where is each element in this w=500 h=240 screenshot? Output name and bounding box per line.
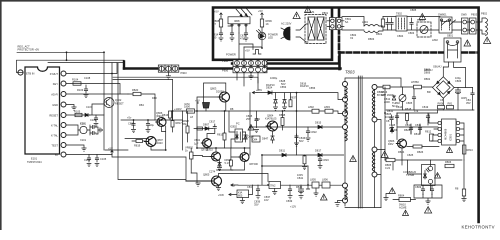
wire MCU upper rail: [48, 62, 124, 64]
pin X-TAL1: [51, 123, 66, 128]
svg-text:C804: C804: [397, 34, 404, 38]
zener D809: [244, 132, 254, 142]
svg-text:KIA78L05: KIA78L05: [265, 117, 277, 121]
diode D811: [279, 149, 286, 157]
wire feedback row: [385, 160, 462, 170]
capacitor C805: [406, 87, 416, 110]
svg-text:R8: R8: [230, 107, 234, 111]
svg-text:RGP10: RGP10: [266, 83, 275, 87]
thick bus A: [232, 57, 339, 64]
svg-text:R801: R801: [376, 32, 383, 36]
svg-text:2200: 2200: [384, 100, 390, 104]
transistor Q807: [145, 137, 164, 147]
svg-text:7IN2: 7IN2: [270, 184, 276, 188]
capacitor C836: [254, 185, 261, 207]
diode D824: [266, 83, 275, 94]
svg-text:L803: L803: [324, 105, 330, 109]
IC801: [438, 119, 460, 145]
svg-text:+5V: +5V: [195, 98, 200, 102]
+5v label: [127, 116, 132, 120]
+5Vh label arrow: [218, 193, 237, 197]
svg-text:C108: C108: [84, 76, 91, 80]
svg-text:+140V: +140V: [174, 107, 182, 111]
svg-text:ETB IN: ETB IN: [26, 71, 34, 75]
svg-text:R103: R103: [77, 88, 84, 92]
svg-text:RGP10: RGP10: [300, 84, 309, 88]
wire vertical x296: [296, 93, 298, 155]
svg-text:D2058: D2058: [216, 90, 224, 94]
svg-text:V802: V802: [194, 138, 201, 142]
ground R804: [384, 194, 389, 201]
wire y166 link: [262, 165, 308, 167]
svg-text:R812: R812: [425, 130, 432, 134]
wire vertical x250: [249, 93, 251, 155]
svg-text:AD-FI: AD-FI: [51, 93, 58, 97]
svg-text:C805: C805: [406, 101, 413, 105]
svg-text:C83: C83: [247, 185, 252, 189]
ground T803 bottom: [335, 201, 343, 207]
warning triangle bottom sec: [321, 194, 328, 200]
svg-text:C811: C811: [415, 123, 422, 127]
warning triangle fb: [381, 151, 388, 157]
svg-text:AC 220V: AC 220V: [281, 22, 292, 26]
transistor Q806: [388, 139, 407, 148]
ground bridge bus: [386, 109, 474, 111]
svg-text:56k: 56k: [183, 122, 188, 126]
+5V arrow IR: [214, 10, 222, 17]
T803 primary winding loops: [345, 87, 347, 200]
wire B+ down: [397, 110, 438, 113]
inductor L802: [308, 105, 319, 113]
wire 5V rail: [66, 154, 112, 156]
wire 12v bus y185: [238, 184, 342, 186]
diode box D846: [252, 136, 260, 142]
resistor R819: [125, 139, 148, 148]
svg-text:X-TAL: X-TAL: [51, 124, 59, 128]
svg-text:P903: P903: [181, 71, 188, 75]
capacitor C803: [407, 18, 440, 35]
svg-text:C803: C803: [408, 31, 415, 35]
label E101 TMP48xxx: [27, 157, 42, 165]
bottom cluster wires: [414, 185, 442, 201]
resistor R804: [393, 194, 416, 210]
wire Q806 emitter: [151, 126, 166, 150]
resistor R802: [411, 77, 431, 89]
crystal X101: [66, 122, 90, 136]
warning triangle ac1: [293, 12, 300, 18]
connector P908 two-row header: [233, 60, 267, 73]
capacitor C802: [390, 18, 393, 30]
resistor R105: [74, 110, 82, 117]
label cluster bottom: [247, 185, 303, 203]
wire top feed to MCU: [17, 60, 125, 72]
connector P901: [158, 65, 179, 72]
svg-text:D811: D811: [279, 149, 286, 153]
ground crystal: [96, 127, 102, 134]
wire filter top: [383, 17, 440, 31]
resistor R839: [302, 155, 306, 170]
svg-text:C817: C817: [209, 120, 216, 124]
svg-text:R8: R8: [455, 187, 459, 191]
svg-text:R822: R822: [404, 128, 411, 132]
zener D826: [280, 82, 287, 110]
pin P-MUT: [50, 71, 66, 76]
wires plug to filter: [296, 24, 308, 42]
wire +26V bus: [257, 93, 342, 100]
warning triangle under IC801: [447, 147, 453, 152]
svg-text:C823: C823: [323, 158, 330, 162]
connector P803: [452, 13, 478, 35]
svg-text:C107: C107: [86, 105, 93, 109]
ground P908: [249, 76, 253, 79]
resistor R821: [197, 127, 203, 130]
svg-text:R803: R803: [368, 37, 375, 41]
wire sec3 (125): [250, 126, 342, 128]
svg-text:1µF: 1µF: [194, 141, 199, 145]
svg-text:RESET: RESET: [115, 101, 124, 105]
svg-text:C102: C102: [90, 118, 97, 122]
svg-text:TH801: TH801: [417, 18, 425, 22]
capacitor C820b: [386, 115, 393, 124]
bridge rectifier D806: [424, 68, 454, 99]
AC plug P802: [281, 22, 292, 41]
resistor R820: [132, 88, 141, 96]
resistor R818: [455, 160, 466, 198]
svg-text:E101: E101: [31, 157, 38, 161]
svg-text:(REG): (REG): [156, 114, 163, 118]
capacitor C846: [294, 134, 305, 146]
svg-text:IC801: IC801: [449, 134, 453, 141]
wire V802: [207, 131, 215, 150]
+5V arrow: [108, 147, 113, 155]
pin KEY: [53, 81, 66, 86]
warning triangle R804b: [403, 210, 409, 215]
svg-text:C825: C825: [407, 153, 414, 157]
bottom cluster capacitor C812: [430, 185, 433, 195]
svg-text:1N4007: 1N4007: [385, 115, 395, 119]
svg-text:R806: R806: [445, 160, 452, 164]
capacitor C105: [84, 155, 91, 167]
resistor R808: [438, 102, 445, 109]
resistor R104: [72, 78, 81, 86]
warning triangle R804: [389, 188, 395, 194]
capacitor C106: [95, 155, 99, 167]
transistor Q804: [265, 114, 278, 131]
wire vertical x262: [261, 155, 263, 185]
capacitor C816: [240, 31, 248, 41]
ground IC805: [240, 198, 244, 204]
svg-text:P908: P908: [222, 59, 229, 63]
capacitor C823: [318, 155, 329, 169]
svg-text:47k: 47k: [414, 109, 419, 113]
resistor R805: [385, 158, 395, 170]
svg-text:GND: GND: [52, 103, 58, 107]
svg-text:C856: C856: [309, 86, 316, 90]
svg-text:HT860: HT860: [411, 80, 419, 84]
wire Q809 links: [217, 148, 245, 170]
svg-text:DGAUS: DGAUS: [305, 10, 314, 14]
svg-text:D815: D815: [315, 121, 322, 125]
connector E102 IN: [18, 70, 35, 75]
vertical wire left rail: [384, 87, 386, 160]
potentiometer VR802: [185, 145, 195, 173]
T803 core: [358, 76, 362, 208]
label cluster bridge: [424, 65, 444, 103]
warning triangle bottom: [425, 207, 432, 213]
T803 secondary rail: [372, 85, 377, 208]
svg-text:C84: C84: [255, 117, 260, 121]
svg-text:35V: 35V: [466, 101, 471, 105]
ground bottom cluster: [426, 201, 430, 204]
svg-text:47µ: 47µ: [240, 37, 245, 41]
svg-text:+5v: +5v: [127, 116, 132, 120]
+5V label arrow: [231, 184, 238, 188]
diode D807b: [203, 122, 210, 130]
svg-text:PC: PC: [236, 122, 240, 126]
svg-text:SW9: SW9: [461, 13, 467, 17]
wire AD-FI line: [66, 93, 128, 95]
resistor R823: [406, 114, 409, 121]
svg-text:+5Vh: +5Vh: [218, 193, 225, 197]
potentiometer VR801: [195, 98, 210, 111]
svg-text:+12V: +12V: [290, 205, 296, 209]
warning triangle ac2: [305, 7, 312, 13]
svg-text:X101: X101: [80, 138, 87, 142]
wire row y128.5: [194, 128, 213, 130]
capacitor C829: [128, 120, 136, 133]
svg-text:50V: 50V: [299, 139, 304, 143]
capacitor C810: [405, 123, 413, 134]
wire P906 line: [113, 77, 258, 90]
capacitor C801: [386, 18, 389, 30]
resistor R813: [463, 145, 474, 154]
posistor crossing barrier: [444, 34, 461, 63]
transformer T802: [396, 12, 407, 32]
KEHOTRONTV watermark: [462, 224, 495, 229]
warning triangle f1: [419, 14, 426, 20]
svg-text:MC44608: MC44608: [444, 128, 448, 140]
svg-text:X2: X2: [350, 36, 354, 40]
wire KEY line: [66, 84, 120, 95]
svg-text:R837: R837: [290, 96, 297, 100]
diode D101: [85, 113, 90, 116]
wire LED down: [244, 40, 262, 47]
ground R818: [462, 199, 466, 202]
svg-text:C819: C819: [422, 105, 429, 109]
transistor Q805: [186, 169, 222, 186]
ground TEST: [82, 148, 86, 151]
IC805 regulator: [237, 185, 253, 198]
wire Q805 collector: [218, 174, 268, 188]
thick bus B: [124, 67, 341, 69]
svg-text:ACME: ACME: [399, 206, 407, 210]
T803 primary rail: [343, 82, 348, 207]
T803 top feed wire: [345, 78, 401, 87]
pin 5V: [55, 152, 66, 157]
ground P901: [166, 72, 170, 79]
svg-text:TEST: TEST: [51, 144, 58, 148]
svg-text:POWER: POWER: [226, 53, 236, 57]
wire B+ bus y111: [171, 110, 222, 112]
label cluster mid: [139, 96, 260, 126]
svg-text:A933: A933: [157, 141, 164, 145]
capacitor C822: [306, 127, 317, 141]
svg-text:R813: R813: [467, 148, 474, 152]
wire reg row y120: [121, 119, 182, 121]
MCU IC E101 TMP48C: [25, 67, 60, 154]
svg-text:R804: R804: [398, 194, 405, 198]
wire TEST: [66, 145, 84, 148]
resistor R801 discharge: [376, 17, 385, 37]
IR receiver E801: [228, 17, 250, 33]
svg-text:P-MUT: P-MUT: [50, 72, 59, 76]
T803 secondary wires right: [377, 87, 385, 208]
capacitor C840: [288, 185, 292, 199]
+26V arrow: [252, 88, 262, 94]
thick bus B riser: [123, 62, 125, 69]
capacitor C815: [230, 31, 234, 41]
svg-text:R8 500: R8 500: [250, 162, 259, 166]
svg-text:C810: C810: [405, 123, 412, 127]
capacitor C103: [90, 125, 96, 128]
inductor L803: [324, 105, 333, 113]
wire REG_ACT +5V: [17, 52, 104, 150]
svg-text:100: 100: [212, 36, 217, 40]
pin AD-FI: [51, 92, 66, 97]
resistor R812: [425, 130, 433, 141]
wire +12 bus y111: [222, 111, 342, 114]
svg-text:BR: BR: [427, 90, 431, 94]
vertical wire risers from MCU area: [105, 63, 186, 181]
svg-text:D809: D809: [248, 134, 255, 138]
capacitor C102: [90, 115, 98, 127]
wires below P908: [237, 73, 258, 87]
wire vertical x182: [181, 111, 183, 150]
IC804 regulator: [269, 182, 281, 192]
line filter coil L804: [362, 20, 383, 33]
svg-text:L802: L802: [432, 38, 438, 42]
resistor R817: [171, 111, 182, 132]
svg-text:P803: P803: [471, 13, 478, 17]
capacitor C811: [415, 123, 422, 134]
thick bus corner riser: [338, 53, 341, 70]
label cluster T803 right: [377, 90, 391, 104]
svg-text:1000µ: 1000µ: [270, 76, 278, 80]
warning triangle mid: [248, 125, 254, 130]
ground: [84, 95, 88, 98]
svg-text:D847: D847: [262, 137, 269, 141]
capacitor C807: [466, 88, 474, 111]
svg-text:C10: C10: [80, 122, 85, 126]
svg-text:R840: R840: [296, 185, 303, 189]
resistor R828: [183, 111, 190, 142]
svg-text:DRV: DRV: [388, 142, 394, 146]
T803 bottom frame: [345, 207, 381, 209]
svg-text:X-TAL: X-TAL: [51, 134, 59, 138]
connector P801: [322, 11, 344, 30]
svg-text:35V: 35V: [254, 203, 259, 207]
svg-text:IR08: IR08: [234, 19, 240, 23]
wire sec4 (155): [262, 154, 344, 156]
svg-text:D806: D806: [424, 68, 431, 72]
capacitor C817: [209, 120, 217, 132]
label REG_ACT: [18, 44, 40, 51]
svg-text:L806: L806: [322, 178, 328, 182]
degauss coil external: [476, 12, 488, 36]
pulse waveform glyph: [253, 50, 261, 55]
bottom cluster capacitor C809: [415, 185, 425, 195]
fuse FB801: [184, 102, 195, 113]
svg-text:SW801: SW801: [438, 13, 447, 17]
svg-text:P802: P802: [481, 12, 488, 16]
svg-text:16V: 16V: [264, 198, 269, 202]
wire Q808 links: [196, 148, 251, 157]
wire riser x172.5: [172, 80, 174, 121]
zener D825: [273, 93, 277, 111]
svg-text:10µ: 10µ: [150, 123, 155, 127]
wire Q801 leads: [197, 83, 226, 148]
svg-text:R820: R820: [132, 88, 139, 92]
svg-text:PROTECTOR +5V: PROTECTOR +5V: [18, 48, 40, 52]
svg-text:0.22: 0.22: [385, 166, 391, 170]
diode D805: [385, 96, 396, 119]
svg-text:T803: T803: [345, 70, 355, 75]
svg-text:(LIN): (LIN): [184, 102, 190, 106]
svg-text:C805: C805: [410, 8, 417, 12]
svg-text:+5V: +5V: [214, 10, 219, 14]
T803 secondary winding loops: [372, 90, 374, 171]
resistor R837: [289, 93, 297, 107]
svg-text:C839: C839: [286, 199, 293, 203]
warning triangle posistor: [464, 40, 471, 46]
wire RESET net: [66, 104, 104, 115]
capacitor C104: [90, 131, 96, 134]
zener D810: [218, 158, 231, 167]
diode box D848: [322, 178, 330, 189]
svg-text:GBU4J: GBU4J: [433, 65, 442, 69]
resistor R815: [217, 111, 226, 148]
IR rays: [236, 8, 252, 17]
svg-text:TMP47C634: TMP47C634: [27, 160, 42, 164]
resistor R823: [407, 145, 439, 148]
wires IC801 right pins: [460, 123, 464, 160]
svg-text:D814: D814: [414, 132, 421, 136]
svg-text:C809: C809: [415, 185, 422, 189]
svg-text:100µ: 100µ: [455, 76, 461, 80]
warning triangle T803: [350, 156, 357, 162]
resistor R829: [229, 157, 233, 170]
bridge connections: [424, 67, 458, 110]
svg-text:C822: C822: [311, 130, 318, 134]
transistor Q808: [201, 147, 221, 161]
label cluster sec top: [270, 76, 316, 90]
svg-text:R811: R811: [387, 109, 394, 113]
svg-text:R104: R104: [72, 78, 79, 82]
svg-text:C828: C828: [279, 79, 286, 83]
svg-text:KEHOTRONTV: KEHOTRONTV: [462, 224, 495, 229]
transistor V802: [194, 138, 212, 148]
svg-text:T802: T802: [396, 12, 402, 16]
resistor R816: [162, 111, 172, 120]
svg-text:C105: C105: [84, 158, 91, 162]
transistor Q801: [210, 87, 230, 102]
svg-text:1K: 1K: [266, 22, 269, 26]
svg-text:Q102: Q102: [115, 98, 122, 102]
svg-text:D817: D817: [315, 149, 322, 153]
svg-text:S801: S801: [447, 34, 454, 38]
wire riser x268: [267, 174, 269, 182]
thermistor TH802: [392, 87, 406, 110]
